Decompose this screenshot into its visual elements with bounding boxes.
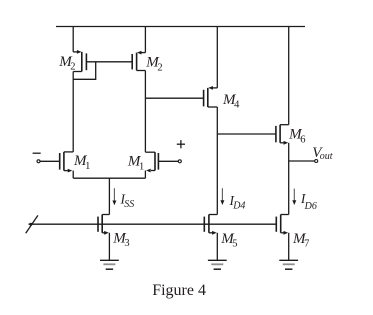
- svg-text:5: 5: [232, 239, 237, 250]
- svg-text:out: out: [320, 151, 333, 162]
- svg-text:2: 2: [70, 61, 75, 72]
- svg-text:4: 4: [234, 100, 240, 111]
- svg-text:SS: SS: [124, 199, 134, 210]
- svg-text:D6: D6: [304, 201, 317, 212]
- svg-text:3: 3: [124, 238, 129, 249]
- svg-text:1: 1: [139, 161, 144, 172]
- svg-text:2: 2: [157, 62, 162, 73]
- svg-text:Figure 4: Figure 4: [152, 282, 206, 299]
- svg-text:6: 6: [300, 134, 305, 145]
- svg-text:1: 1: [85, 161, 90, 172]
- svg-text:7: 7: [304, 239, 309, 250]
- svg-text:D4: D4: [232, 201, 245, 212]
